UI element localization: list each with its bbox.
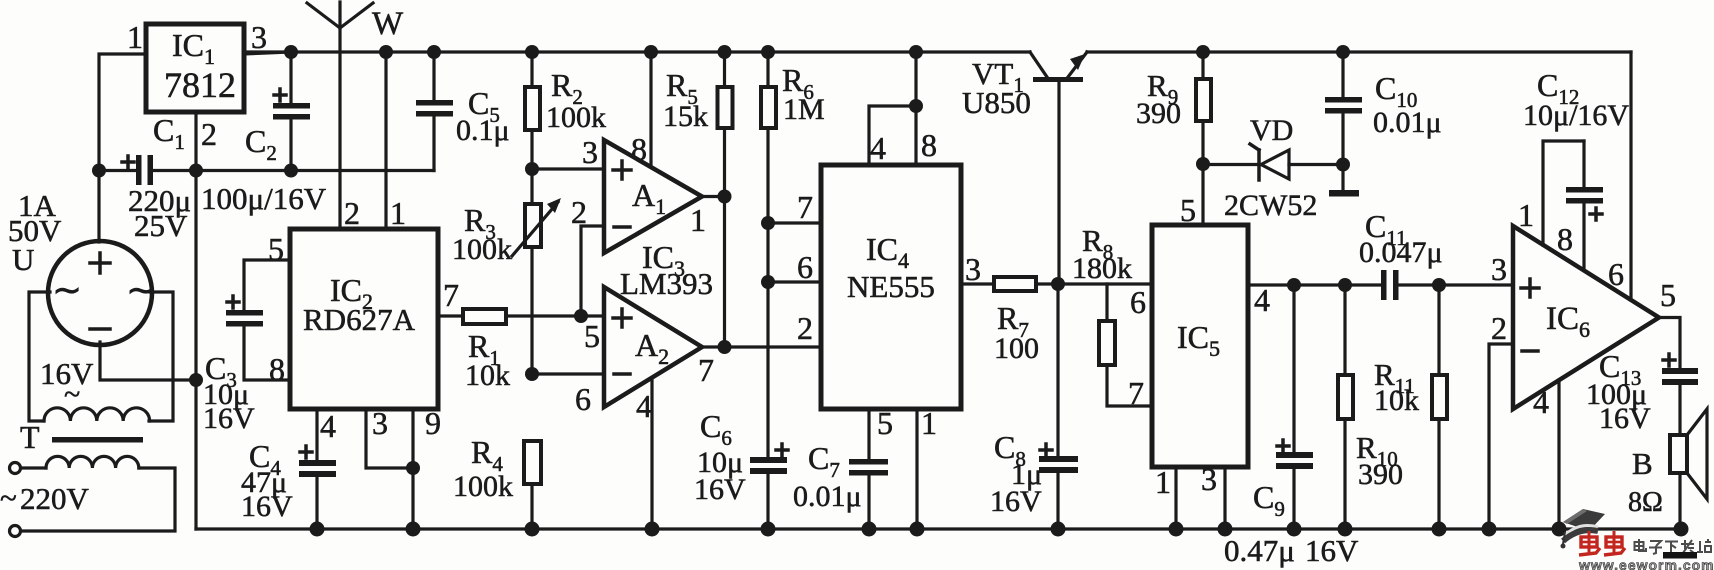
svg-text:3: 3 (251, 19, 267, 55)
wire IC4 pin3 to R7 (961, 282, 994, 285)
node R9 VD pin5 junction (1196, 157, 1210, 171)
svg-text:3: 3 (1201, 461, 1217, 497)
svg-text:100μ/16V: 100μ/16V (201, 181, 327, 216)
wire IC4 pin8 (914, 52, 917, 165)
node C2 top (284, 45, 298, 59)
svg-text:∼: ∼ (126, 270, 156, 310)
node R3 bottom pin6 junction (525, 367, 539, 381)
svg-text:390: 390 (1358, 458, 1403, 491)
resistor R9 390 (1136, 52, 1211, 164)
op-amp IC6 (1491, 197, 1676, 420)
resistor R5 15k (663, 52, 733, 347)
svg-text:NE555: NE555 (847, 269, 935, 304)
wire R1 to A2 plus input (506, 314, 604, 317)
capacitor C4 47u 16V (241, 438, 336, 529)
transistor VT1 U850 (962, 52, 1087, 120)
transformer T core (52, 437, 143, 443)
svg-text:2: 2 (344, 195, 360, 231)
ground rail to C2 C5 (196, 169, 434, 172)
svg-text:U850: U850 (962, 85, 1031, 120)
node pin6 junction (761, 275, 775, 289)
wire to A1 plus input pin3 (532, 167, 604, 170)
ground bar below C10 (1341, 165, 1344, 191)
svg-text:3: 3 (965, 251, 981, 287)
node A2 pin4 ground (645, 522, 660, 537)
capacitor C8 1u 16V (990, 284, 1078, 529)
node IC6 pin2 ground (1482, 522, 1497, 537)
node speaker ground (1674, 522, 1689, 537)
node A2 output junction (718, 340, 732, 354)
svg-text:220V: 220V (20, 481, 90, 516)
wire IC1 pin2 ground drop (194, 112, 197, 529)
node A1 output junction (718, 190, 732, 204)
wire IC1 pin1 to bridge + (99, 54, 146, 242)
wire IC2 pin5 loop (244, 260, 290, 310)
wire IC5 pin4 signal line (1248, 283, 1513, 286)
node C1 left junction (92, 164, 106, 178)
wire IC6 pin6 to top bus (1629, 52, 1632, 300)
wire VT1 collector (1057, 82, 1060, 284)
svg-text:15k: 15k (663, 100, 708, 133)
wire +12V top bus left segment (244, 50, 1030, 53)
capacitor C6 10u 16V (694, 408, 788, 529)
svg-text:8: 8 (1557, 221, 1573, 257)
svg-text:8: 8 (921, 127, 937, 163)
capacitor C2 100u/16V (245, 52, 310, 171)
wire IC4 pin1 to ground bus (915, 409, 918, 529)
svg-text:4: 4 (320, 408, 336, 444)
resistor R2 100k (525, 52, 606, 169)
svg-text:2: 2 (201, 116, 217, 152)
IC1 7812 regulator (127, 19, 267, 152)
svg-text:16V: 16V (1599, 402, 1651, 435)
op-amp A1 (571, 131, 706, 253)
node C4 ground (310, 522, 325, 537)
svg-text:7812: 7812 (164, 65, 236, 105)
svg-text:5: 5 (877, 405, 893, 441)
node R1 junction (574, 309, 588, 323)
svg-text:U: U (12, 242, 34, 277)
svg-text:6: 6 (797, 249, 813, 285)
wire IC6 pin4 to ground bus (1557, 380, 1560, 529)
svg-text:2: 2 (1491, 310, 1507, 346)
wire IC2 pin3 to pin9 (366, 409, 413, 468)
capacitor C7 0.01u (793, 440, 888, 529)
wire to A2 minus input pin6 (532, 372, 604, 375)
node bridge minus junction (189, 373, 203, 387)
node pin9 ground (406, 522, 421, 537)
node C10 top bus (1336, 45, 1350, 59)
svg-text:2: 2 (797, 310, 813, 346)
wire bridge left AC to secondary (29, 292, 50, 421)
wire IC1 pin3 to +12V bus (244, 52, 291, 54)
capacitor C13 100u 16V (1586, 348, 1698, 435)
svg-text:180k: 180k (1072, 252, 1132, 285)
node IC5 pin3 ground (1218, 522, 1233, 537)
svg-text:6: 6 (1130, 284, 1146, 320)
node R11 ground (1432, 522, 1447, 537)
wire IC4 pin6 (768, 280, 821, 283)
capacitor C11 0.047u (1359, 208, 1443, 300)
resistor R11 10k (1374, 285, 1447, 529)
terminal 220V bottom (10, 526, 21, 537)
node C9 top (1287, 278, 1301, 292)
svg-text:4: 4 (636, 388, 652, 424)
node R2 R3 pin3 junction (525, 162, 539, 176)
svg-text:www.eeworm.com: www.eeworm.com (1578, 557, 1714, 570)
svg-text:W: W (372, 6, 404, 42)
watermark graduation cap logo (1561, 509, 1606, 549)
watermark black bar (1663, 552, 1697, 559)
wire bridge minus to ground drop (100, 342, 196, 380)
svg-text:10k: 10k (1374, 384, 1419, 417)
svg-text:7: 7 (797, 189, 813, 225)
svg-text:7: 7 (1128, 375, 1144, 411)
terminal 220V top (10, 463, 21, 474)
node C2 bottom (284, 164, 298, 178)
node IC6 pin4 ground (1552, 522, 1567, 537)
svg-text:8: 8 (631, 131, 647, 167)
wire IC4 pin5 (867, 409, 870, 459)
svg-text:100k: 100k (453, 470, 513, 503)
svg-text:8Ω: 8Ω (1628, 487, 1663, 518)
svg-text:7: 7 (443, 277, 459, 313)
wire IC2 pin9 to ground bus (411, 409, 414, 529)
svg-text:0.01μ: 0.01μ (1373, 106, 1442, 139)
IC5 (1128, 192, 1270, 500)
node R6 top (761, 45, 775, 59)
wire A2 pin4 to ground bus (650, 378, 653, 529)
capacitor C5 0.1u (416, 52, 510, 171)
node IC4 pin8 bus junction (909, 45, 923, 59)
wire +12V top bus right segment (1087, 50, 1631, 53)
diode VD 2CW52 zener (1203, 114, 1343, 222)
node C7 ground (862, 522, 877, 537)
svg-text:5: 5 (1180, 192, 1196, 228)
wire A1 pin8 (649, 52, 652, 167)
svg-text:9: 9 (425, 405, 441, 441)
wire IC6 output pin5 (1659, 318, 1680, 369)
resistor R10 390 (1338, 285, 1403, 529)
svg-text:~: ~ (0, 480, 17, 515)
wire ground bottom bus (196, 527, 1681, 530)
svg-text:1: 1 (1155, 464, 1171, 500)
node C6 ground (761, 522, 776, 537)
svg-text:16V: 16V (990, 485, 1042, 518)
watermark chongchong red characters (1579, 531, 1625, 555)
node IC2 pin1 bus junction (379, 45, 393, 59)
svg-text:~: ~ (64, 378, 80, 411)
watermark grey site name characters (1635, 539, 1712, 554)
svg-text:T: T (20, 419, 40, 455)
svg-text:1: 1 (690, 202, 706, 238)
node R9 top bus (1196, 45, 1210, 59)
svg-text:16V: 16V (241, 490, 293, 523)
wire IC5 pin5 to zener node (1201, 164, 1204, 225)
resistor R1 10k (463, 309, 510, 392)
transformer T primary winding (46, 456, 139, 468)
IC2 RD627A (268, 195, 459, 444)
node pin4-pin8 junction (909, 99, 923, 113)
svg-text:3: 3 (1491, 251, 1507, 287)
resistor R3 100k variable (452, 169, 561, 374)
svg-text:100k: 100k (546, 101, 606, 134)
node R10 ground (1338, 522, 1353, 537)
wire primary return loop (21, 468, 175, 531)
svg-text:6: 6 (575, 381, 591, 417)
svg-text:VD: VD (1250, 114, 1293, 147)
node R2 top (525, 45, 539, 59)
svg-text:10k: 10k (465, 359, 510, 392)
svg-text:3: 3 (582, 134, 598, 170)
svg-text:0.1μ: 0.1μ (456, 114, 510, 147)
wire A1 pin2 loop to R1 node (581, 226, 604, 316)
node C5 top (427, 45, 441, 59)
svg-text:0.01μ: 0.01μ (793, 480, 862, 513)
svg-text:16V: 16V (694, 473, 746, 506)
svg-text:16V: 16V (1305, 533, 1359, 568)
svg-text:RD627A: RD627A (303, 302, 416, 337)
svg-text:5: 5 (1660, 277, 1676, 313)
node IC5 pin1 ground (1169, 522, 1184, 537)
transformer T secondary 16V winding (44, 408, 150, 421)
resistor R8 180k between pin6 and pin7 (1072, 223, 1152, 406)
svg-text:100k: 100k (452, 233, 512, 266)
wire bridge right AC to secondary (149, 292, 173, 421)
wire A1 output (702, 195, 725, 198)
IC4 NE555 (797, 127, 981, 441)
node A1 pin8 bus junction (644, 45, 658, 59)
node C9 ground (1287, 522, 1302, 537)
speaker B 8ohm (1628, 409, 1707, 529)
svg-text:∼: ∼ (52, 270, 82, 310)
svg-text:7: 7 (698, 352, 714, 388)
svg-text:1: 1 (127, 19, 143, 55)
node VD C10 junction (1336, 158, 1350, 172)
wire IC4 pin4 bracket (869, 106, 916, 165)
svg-text:1M: 1M (783, 93, 825, 126)
wire IC6 pin2 to ground bus (1489, 344, 1513, 529)
svg-text:16V: 16V (203, 402, 255, 435)
node R10 top (1338, 278, 1352, 292)
svg-text:6: 6 (1608, 256, 1624, 292)
svg-text:1: 1 (390, 195, 406, 231)
wire IC4 pin7 (768, 221, 821, 224)
svg-text:0.047μ: 0.047μ (1359, 236, 1443, 269)
resistor R6 1M (761, 52, 825, 457)
wire IC2 pin7 to R1 (438, 314, 463, 317)
svg-text:10μ/16V: 10μ/16V (1523, 99, 1629, 132)
wire IC6 pin1 loop (1543, 141, 1584, 245)
svg-text:0.47μ: 0.47μ (1224, 533, 1295, 568)
svg-text:LM393: LM393 (620, 266, 713, 301)
resistor R7 100 (994, 277, 1058, 365)
node pin3-pin9 junction (406, 461, 420, 475)
svg-text:3: 3 (372, 405, 388, 441)
capacitor C12 10u/16V (1523, 67, 1629, 270)
svg-text:390: 390 (1136, 97, 1181, 130)
svg-text:4: 4 (870, 130, 886, 166)
wire antenna to IC2 pin2 (338, 28, 341, 229)
capacitor C10 0.01u (1325, 52, 1442, 165)
op-amp A2 (575, 287, 714, 424)
svg-text:5: 5 (584, 318, 600, 354)
capacitor C1 220u/25V (99, 112, 196, 243)
wire A2 output to IC4 pin2 (702, 345, 821, 348)
svg-text:1: 1 (921, 405, 937, 441)
node R11 top (1432, 278, 1446, 292)
wire IC2 pin8 loop (244, 326, 290, 380)
node pin7 junction (761, 216, 775, 230)
resistor R4 100k (453, 434, 541, 529)
wire IC2 pin1 (384, 52, 387, 229)
svg-text:4: 4 (1533, 384, 1549, 420)
svg-text:1: 1 (1518, 197, 1534, 233)
capacitor C3 10u 16V (203, 296, 263, 435)
svg-text:2CW52: 2CW52 (1224, 189, 1317, 222)
capacitor C9 0.47u 16V (1224, 285, 1359, 568)
node R7 VT1 C8 junction (1051, 277, 1065, 291)
bridge rectifier U 1A 50V (8, 188, 156, 345)
node C8 ground (1051, 522, 1066, 537)
node IC4 pin1 ground (910, 522, 925, 537)
node R4 ground (525, 522, 540, 537)
wire IC5 pin1 to ground (1174, 467, 1177, 529)
svg-text:B: B (1632, 446, 1653, 481)
node R5 top (718, 45, 732, 59)
node C1 right junction (189, 164, 203, 178)
svg-text:4: 4 (1254, 282, 1270, 318)
svg-text:100: 100 (994, 332, 1039, 365)
wire IC2 pin4 (315, 409, 318, 460)
antenna W (307, 2, 404, 42)
wire C8 node to IC5 pin6 (1058, 282, 1152, 285)
svg-text:25V: 25V (134, 208, 188, 243)
wire IC5 pin3 to ground (1223, 467, 1226, 529)
